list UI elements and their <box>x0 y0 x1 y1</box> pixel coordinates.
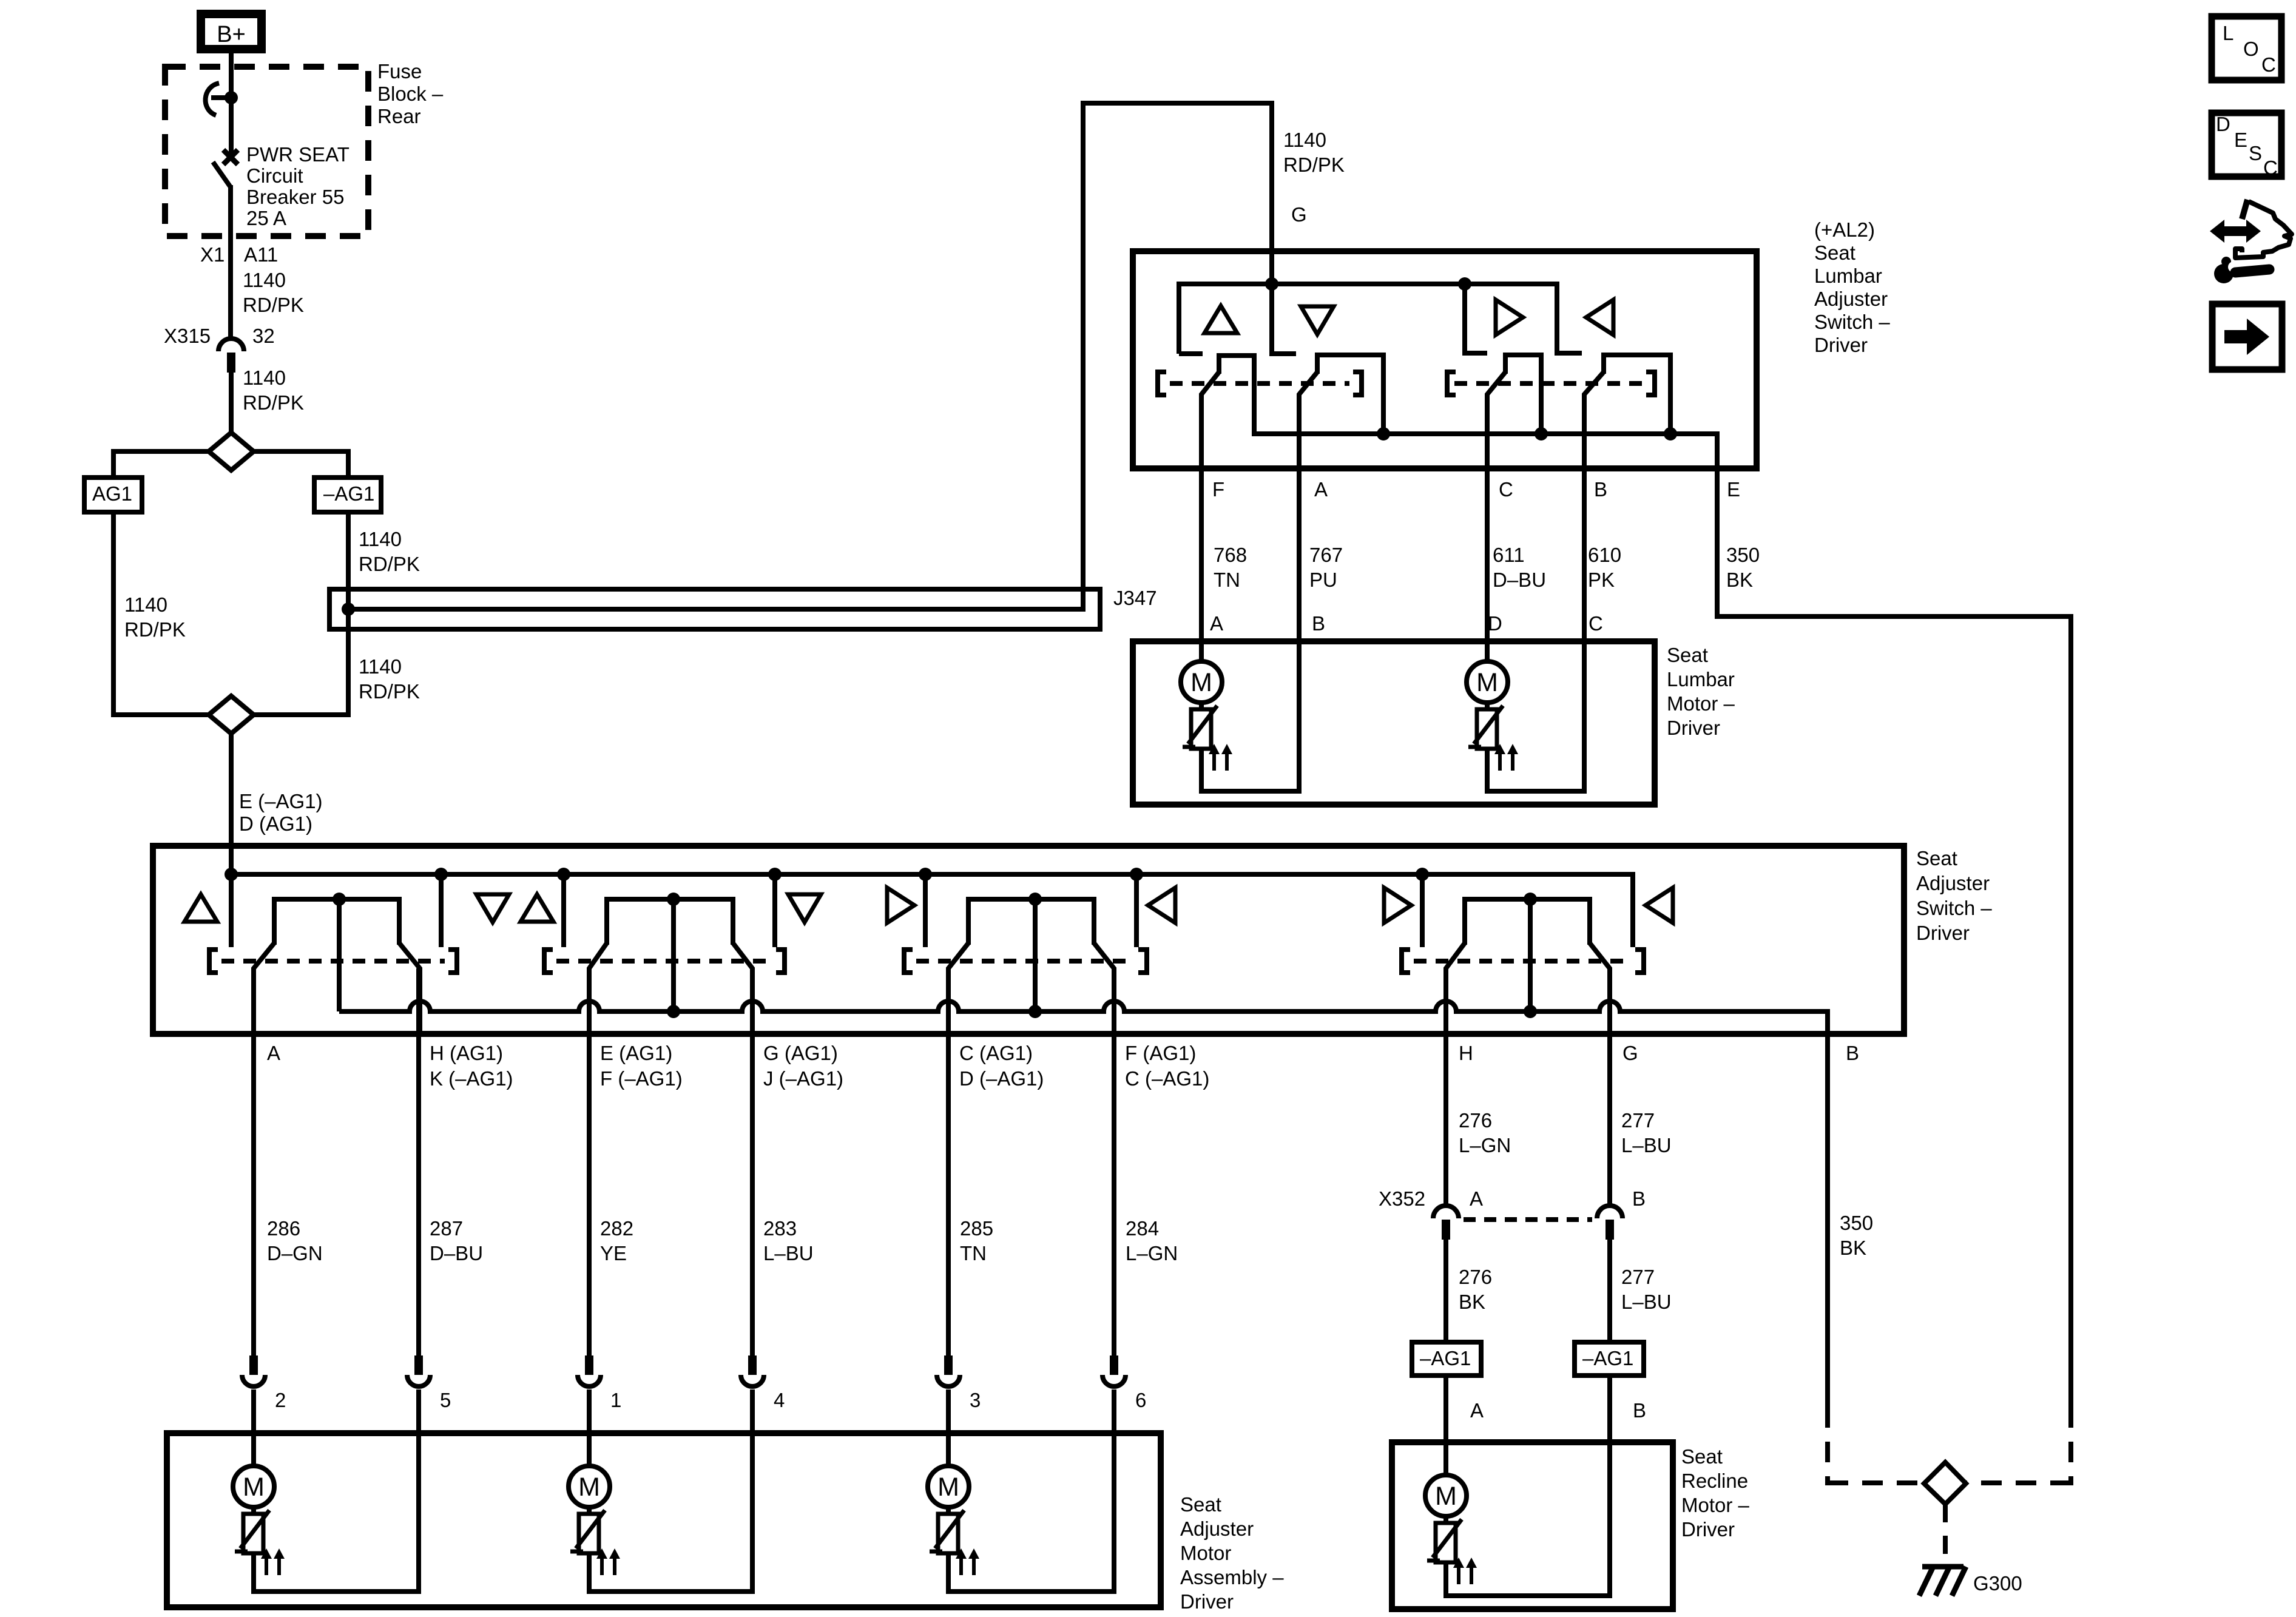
svg-text:G (AG1): G (AG1) <box>763 1042 838 1064</box>
seat switch rear height bracket right <box>776 950 785 973</box>
svg-text:4: 4 <box>774 1389 785 1411</box>
svg-text:1140: 1140 <box>124 593 167 616</box>
svg-text:611: 611 <box>1493 544 1525 566</box>
svg-text:F: F <box>1212 478 1224 501</box>
svg-text:M: M <box>1435 1482 1457 1511</box>
svg-text:1140: 1140 <box>359 528 402 550</box>
svg-text:Lumbar: Lumbar <box>1667 668 1735 690</box>
seat switch recline blade left <box>1446 942 1465 1034</box>
seat switch front height linkage dashed line <box>221 959 445 964</box>
lumbar motor 1 <box>1199 641 1204 661</box>
svg-text:H (AG1): H (AG1) <box>430 1042 503 1064</box>
seat switch supply bus <box>231 874 1633 947</box>
svg-text:J347: J347 <box>1113 587 1157 609</box>
splice pack J347 box <box>329 589 1100 629</box>
wire splice to -AG1 box <box>252 451 348 478</box>
option box -AG1 left <box>1412 1342 1481 1376</box>
svg-text:O: O <box>2243 38 2259 60</box>
svg-text:E: E <box>1727 478 1740 501</box>
seat switch horizontal rearward arrow <box>1148 888 1175 923</box>
seat switch recline bracket right <box>1635 950 1644 973</box>
svg-text:–AG1: –AG1 <box>1582 1347 1633 1369</box>
svg-text:D–GN: D–GN <box>267 1242 323 1264</box>
svg-text:C (–AG1): C (–AG1) <box>1125 1067 1209 1090</box>
svg-text:H: H <box>1459 1042 1473 1064</box>
lumbar up arrow <box>1204 306 1237 333</box>
svg-text:C: C <box>2263 157 2278 179</box>
svg-text:Recline: Recline <box>1681 1470 1748 1492</box>
svg-text:282: 282 <box>600 1217 633 1240</box>
junction dots lumbar collector <box>1377 427 1390 441</box>
inline connector pin 2 <box>249 1355 258 1375</box>
inline connector pin 6 <box>1110 1355 1118 1375</box>
svg-text:1: 1 <box>610 1389 621 1411</box>
svg-text:D (–AG1): D (–AG1) <box>959 1067 1044 1090</box>
wire -AG1 to recline motor A <box>1443 1376 1448 1475</box>
svg-text:Circuit: Circuit <box>246 164 303 187</box>
seat switch horizontal blade left <box>948 942 969 1034</box>
svg-text:L–BU: L–BU <box>763 1242 814 1264</box>
seat switch horizontal blade right <box>1093 942 1114 1034</box>
svg-text:A: A <box>1210 612 1223 635</box>
svg-text:M: M <box>1190 668 1212 697</box>
svg-text:L: L <box>2223 22 2234 44</box>
wire AG1 to lower splice <box>113 512 208 715</box>
svg-text:F (–AG1): F (–AG1) <box>600 1067 683 1090</box>
lumbar down arrow <box>1301 306 1334 334</box>
ground splice diamond <box>1924 1462 1966 1504</box>
svg-text:RD/PK: RD/PK <box>243 391 304 414</box>
svg-text:283: 283 <box>763 1217 797 1240</box>
svg-text:Assembly –: Assembly – <box>1180 1566 1284 1588</box>
splice diamond upper <box>209 433 254 470</box>
svg-text:1140: 1140 <box>243 269 286 291</box>
svg-text:–AG1: –AG1 <box>323 482 374 505</box>
dashed wire into ground splice right <box>1966 1480 2071 1485</box>
svg-text:M: M <box>578 1473 600 1502</box>
svg-text:Block –: Block – <box>377 83 444 105</box>
svg-text:Seat: Seat <box>1667 644 1708 666</box>
icon hand arrows <box>2210 220 2261 243</box>
lumbar collector wire to pin E <box>1254 433 2071 1407</box>
svg-text:TN: TN <box>1214 569 1240 591</box>
lumbar linkage bracket left 2 <box>1447 372 1456 395</box>
svg-text:C: C <box>1589 612 1603 635</box>
svg-text:G: G <box>1291 203 1307 226</box>
svg-text:Adjuster: Adjuster <box>1814 288 1888 310</box>
wire splice to AG1 box <box>113 451 210 478</box>
svg-text:276: 276 <box>1459 1266 1492 1288</box>
seat switch recline contact bar <box>1465 899 1590 945</box>
wire pin H to X352 <box>1443 968 1448 1205</box>
svg-text:X1: X1 <box>200 243 225 266</box>
seat lumbar motor driver box <box>1133 641 1655 805</box>
seat recline motor box <box>1392 1442 1673 1609</box>
svg-text:A: A <box>1470 1187 1483 1210</box>
seat switch recline blade right <box>1589 942 1610 1034</box>
seat switch collector wire to pin B <box>339 1001 1828 1407</box>
seat adjuster motor assembly box <box>167 1433 1161 1607</box>
wire J347 to lumbar switch pin G <box>348 103 1272 609</box>
svg-text:A11: A11 <box>244 243 278 266</box>
svg-text:E: E <box>2234 129 2247 151</box>
seat switch horizontal forward arrow <box>887 888 914 923</box>
svg-text:K (–AG1): K (–AG1) <box>430 1067 513 1090</box>
circuit breaker tap tick <box>211 95 231 100</box>
junction dot lumbar bus right <box>1458 277 1471 291</box>
svg-text:Breaker 55: Breaker 55 <box>246 186 344 208</box>
svg-text:Driver: Driver <box>1814 334 1868 356</box>
svg-text:A: A <box>1470 1399 1484 1422</box>
svg-text:350: 350 <box>1726 544 1760 566</box>
wire pin F to motor 6 <box>1112 968 1116 1355</box>
wire pin A to motor 2 <box>251 968 256 1355</box>
seat adjuster switch box <box>153 846 1904 1034</box>
lumbar switch contact A <box>1317 355 1383 434</box>
lumbar motor 2 <box>1485 641 1490 661</box>
wire X352 B to -AG1 box <box>1607 1236 1612 1342</box>
svg-text:Driver: Driver <box>1681 1518 1735 1541</box>
bus junction dot and feed stub <box>557 868 570 881</box>
svg-text:1140: 1140 <box>359 655 402 678</box>
lumbar blade to pin B <box>1584 371 1604 641</box>
svg-text:Switch –: Switch – <box>1916 897 1992 919</box>
seat switch recline linkage dashed line <box>1414 959 1632 964</box>
svg-text:–AG1: –AG1 <box>1420 1347 1471 1369</box>
svg-text:Seat: Seat <box>1180 1493 1221 1516</box>
svg-text:BK: BK <box>1840 1237 1866 1259</box>
svg-text:M: M <box>937 1473 959 1502</box>
seat adjuster motor front <box>946 1433 951 1466</box>
seat switch horizontal bracket right <box>1138 950 1147 973</box>
svg-text:C (AG1): C (AG1) <box>959 1042 1033 1064</box>
svg-text:Adjuster: Adjuster <box>1180 1517 1254 1540</box>
lumbar feed stub down contact <box>1272 284 1296 354</box>
lumbar blade to pin C <box>1487 371 1506 661</box>
icon hand with wrench <box>2242 200 2247 219</box>
bus junction dot and feed stub <box>919 868 932 881</box>
bus junction dot and feed stub <box>225 868 238 881</box>
junction dot at J347 <box>342 603 355 616</box>
svg-text:B: B <box>1594 478 1607 501</box>
svg-text:350: 350 <box>1840 1212 1873 1234</box>
svg-text:RD/PK: RD/PK <box>359 553 420 575</box>
svg-text:PWR SEAT: PWR SEAT <box>246 143 349 166</box>
svg-text:D–BU: D–BU <box>430 1242 483 1264</box>
icon box right arrow <box>2212 304 2282 370</box>
svg-text:767: 767 <box>1309 544 1343 566</box>
svg-text:B: B <box>1633 1399 1646 1422</box>
inline connector pin 3 <box>944 1355 953 1375</box>
svg-text:RD/PK: RD/PK <box>124 618 186 641</box>
svg-text:B: B <box>1632 1187 1646 1210</box>
wire pin G to motor 4 <box>750 968 755 1355</box>
svg-text:768: 768 <box>1214 544 1247 566</box>
svg-text:Driver: Driver <box>1916 922 1970 944</box>
svg-text:L–GN: L–GN <box>1459 1134 1511 1156</box>
seat switch horizontal contact bar <box>968 899 1094 945</box>
svg-text:G300: G300 <box>1973 1572 2022 1595</box>
svg-text:284: 284 <box>1126 1217 1159 1240</box>
svg-text:E (–AG1): E (–AG1) <box>239 790 323 812</box>
lumbar bus stub to up contact <box>1179 351 1203 356</box>
circuit breaker contact x <box>223 150 238 164</box>
lumbar forward arrow <box>1496 300 1523 335</box>
svg-text:Rear: Rear <box>377 105 421 127</box>
splice diamond lower <box>209 696 254 734</box>
lumbar blade to pin F <box>1201 371 1220 661</box>
svg-text:BK: BK <box>1459 1291 1485 1313</box>
svg-text:M: M <box>1476 668 1498 697</box>
svg-text:C: C <box>2261 53 2276 76</box>
svg-text:Seat: Seat <box>1814 241 1855 264</box>
wire lower splice to seat adjuster switch <box>229 734 234 877</box>
junction dot at breaker <box>225 91 238 104</box>
connector X315 pin 32 <box>218 339 244 351</box>
lumbar feed stub forward contact <box>1465 284 1487 353</box>
svg-text:287: 287 <box>430 1217 463 1240</box>
svg-text:6: 6 <box>1135 1389 1146 1411</box>
svg-text:Motor: Motor <box>1180 1542 1231 1564</box>
wire -AG1 down to lower splice <box>252 512 348 715</box>
icon box DESC <box>2212 113 2281 177</box>
svg-text:S: S <box>2249 142 2262 164</box>
svg-text:(+AL2): (+AL2) <box>1814 218 1875 241</box>
svg-text:X352: X352 <box>1379 1187 1425 1210</box>
seat switch horizontal linkage dashed line <box>916 959 1135 964</box>
wire pin E to motor 1 <box>587 968 592 1355</box>
seat switch rear height contact bar <box>607 899 733 945</box>
dashed wire into ground splice left <box>1828 1480 1924 1485</box>
svg-text:E (AG1): E (AG1) <box>600 1042 672 1064</box>
svg-text:Motor –: Motor – <box>1667 692 1735 715</box>
option box -AG1 <box>314 478 381 512</box>
lumbar switch supply bus <box>1179 284 1582 354</box>
X352 mating dashed line <box>1464 1217 1592 1222</box>
connector X352 half A <box>1433 1206 1459 1218</box>
wire -AG1 to recline motor B <box>1607 1376 1612 1442</box>
junction dot lumbar bus G <box>1265 277 1278 291</box>
lumbar linkage dashed line fwd/rear <box>1454 381 1643 386</box>
svg-text:B: B <box>1846 1042 1859 1064</box>
seat adjuster motor horizontal <box>587 1433 592 1466</box>
seat switch front height bracket left <box>209 950 218 973</box>
svg-text:L–GN: L–GN <box>1126 1242 1178 1264</box>
wire B+ to circuit breaker <box>229 53 234 157</box>
fuse block dashed box <box>165 67 368 236</box>
wire breaker to connector X315 <box>228 185 233 338</box>
svg-text:3: 3 <box>970 1389 981 1411</box>
svg-text:Switch –: Switch – <box>1814 311 1890 333</box>
option box -AG1 right <box>1575 1342 1644 1376</box>
svg-text:32: 32 <box>252 325 275 347</box>
seat switch front height blade right <box>399 942 420 1034</box>
svg-text:D: D <box>2216 113 2230 135</box>
seat switch recline tap to collector <box>1528 899 1533 1011</box>
dashed wire splice to ground <box>1943 1504 1948 1564</box>
seat switch front height blade left <box>254 942 275 1034</box>
svg-text:L–BU: L–BU <box>1621 1291 1672 1313</box>
connector X352 half B <box>1597 1206 1622 1218</box>
seat adjuster motor vertical <box>251 1433 256 1466</box>
circuit breaker blade <box>213 162 230 186</box>
svg-text:277: 277 <box>1621 1266 1655 1288</box>
svg-text:Adjuster: Adjuster <box>1916 872 1990 894</box>
seat lumbar adjuster switch box <box>1133 251 1757 468</box>
lumbar linkage bracket right 2 <box>1646 372 1655 395</box>
svg-text:Seat: Seat <box>1916 847 1957 869</box>
lumbar linkage dashed line up/down <box>1170 381 1349 386</box>
svg-text:1140: 1140 <box>243 366 286 389</box>
seat switch front height contact bar <box>274 899 399 945</box>
seat switch recline forward arrow <box>1384 888 1411 923</box>
inline connector pin 1 <box>585 1355 593 1375</box>
ground symbol G300 <box>1922 1564 1963 1570</box>
icon box LOC <box>2212 16 2281 80</box>
svg-text:Fuse: Fuse <box>377 60 422 83</box>
svg-text:A: A <box>1314 478 1328 501</box>
seat switch front height tap to collector <box>337 899 342 1011</box>
svg-text:286: 286 <box>267 1217 300 1240</box>
svg-text:D (AG1): D (AG1) <box>239 812 312 835</box>
svg-text:L–BU: L–BU <box>1621 1134 1672 1156</box>
recline motor <box>1443 1442 1448 1475</box>
svg-text:B+: B+ <box>217 22 246 47</box>
seat switch recline bracket left <box>1402 950 1410 973</box>
svg-text:TN: TN <box>960 1242 987 1264</box>
wire X315 to splice <box>229 371 234 434</box>
seat switch horizontal bracket left <box>904 950 913 973</box>
bus junction dot and feed stub <box>1416 868 1429 881</box>
svg-text:277: 277 <box>1621 1109 1655 1132</box>
seat switch horizontal tap to collector <box>1033 899 1038 1011</box>
svg-text:J (–AG1): J (–AG1) <box>763 1067 843 1090</box>
seat switch rear height linkage dashed line <box>556 959 772 964</box>
lumbar linkage bracket left <box>1158 372 1166 395</box>
lumbar switch contact C <box>1505 355 1541 434</box>
svg-text:Motor –: Motor – <box>1681 1494 1750 1516</box>
lumbar switch contact B <box>1604 355 1670 434</box>
svg-text:5: 5 <box>440 1389 451 1411</box>
svg-text:276: 276 <box>1459 1109 1492 1132</box>
lumbar linkage bracket right <box>1353 372 1362 395</box>
svg-text:G: G <box>1622 1042 1638 1064</box>
inline connector pin 4 <box>748 1355 757 1375</box>
wire 350 BK pin B dashed to ground splice <box>1825 1407 1830 1485</box>
svg-text:D–BU: D–BU <box>1493 569 1546 591</box>
icon wrench <box>2221 257 2231 266</box>
bus junction dot and feed stub <box>434 868 448 881</box>
svg-text:RD/PK: RD/PK <box>1283 154 1345 176</box>
lumbar switch contact F <box>1219 356 1254 434</box>
wire pin H to motor 5 <box>416 968 421 1355</box>
svg-text:A: A <box>267 1042 280 1064</box>
seat switch rear height down arrow <box>788 894 821 922</box>
svg-text:C: C <box>1499 478 1513 501</box>
B+ battery positive feed box <box>201 14 262 49</box>
bus junction dot and feed stub <box>768 868 782 881</box>
option box AG1 <box>84 478 142 512</box>
svg-text:PK: PK <box>1588 569 1615 591</box>
inline connector pin 5 <box>414 1355 423 1375</box>
seat switch rear height blade left <box>589 942 607 1034</box>
seat switch rear height tap to collector <box>671 899 676 1011</box>
wire pin C to motor 3 <box>946 968 951 1355</box>
lumbar blade to pin A <box>1299 371 1318 641</box>
wire X352 A to -AG1 box <box>1443 1236 1448 1342</box>
bus junction dot and feed stub <box>1130 868 1143 881</box>
junction dots on collector <box>667 1005 680 1018</box>
seat switch front height down arrow <box>476 894 509 922</box>
wire 350 BK lumbar dashed to ground splice <box>2068 1407 2073 1485</box>
svg-text:610: 610 <box>1588 544 1621 566</box>
svg-text:AG1: AG1 <box>92 482 132 505</box>
seat switch rear height bracket left <box>544 950 553 973</box>
svg-text:Driver: Driver <box>1180 1590 1234 1613</box>
svg-text:285: 285 <box>960 1217 993 1240</box>
seat switch front height bracket right <box>448 950 457 973</box>
svg-text:Lumbar: Lumbar <box>1814 265 1882 287</box>
wire pin G to X352 <box>1607 968 1612 1205</box>
lumbar rearward arrow <box>1586 300 1613 335</box>
seat switch rear height up arrow <box>521 894 553 922</box>
svg-text:PU: PU <box>1309 569 1337 591</box>
svg-text:Driver: Driver <box>1667 717 1720 739</box>
svg-text:2: 2 <box>275 1389 286 1411</box>
svg-text:25 A: 25 A <box>246 207 286 229</box>
svg-text:BK: BK <box>1726 569 1753 591</box>
svg-text:M: M <box>243 1473 265 1502</box>
svg-text:Seat: Seat <box>1681 1445 1723 1468</box>
svg-text:YE: YE <box>600 1242 627 1264</box>
circuit breaker 55 hook <box>206 83 219 115</box>
svg-text:RD/PK: RD/PK <box>243 294 304 316</box>
svg-text:1140: 1140 <box>1283 129 1326 151</box>
svg-text:X315: X315 <box>164 325 211 347</box>
svg-text:B: B <box>1312 612 1325 635</box>
svg-text:F (AG1): F (AG1) <box>1125 1042 1196 1064</box>
seat switch recline rearward arrow <box>1646 888 1673 923</box>
svg-text:RD/PK: RD/PK <box>359 680 420 703</box>
svg-text:D: D <box>1488 612 1502 635</box>
seat switch rear height blade right <box>732 942 752 1034</box>
seat switch front height up arrow <box>184 894 217 922</box>
